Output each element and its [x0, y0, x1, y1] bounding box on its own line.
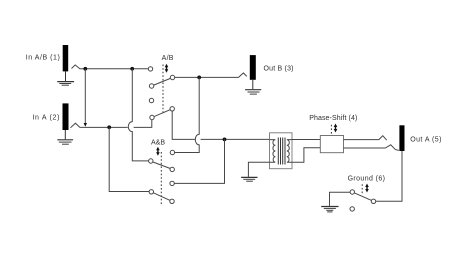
- switch S2 toggle arrow: [156, 147, 160, 156]
- switch S1 contact throw 1 up: [148, 67, 152, 71]
- phase-shift mechanical link (dashed): [330, 125, 332, 136]
- transformer T1 primary winding: [270, 140, 276, 163]
- switch S2 blade pole2: [153, 193, 170, 201]
- switch S2 pole 1: [149, 159, 153, 163]
- ground (transformer primary): [241, 177, 257, 181]
- ground (chassis via switch): [321, 207, 338, 212]
- switch S2 pole 2: [149, 190, 153, 194]
- switch S1 contact throw 2 down: [150, 115, 154, 119]
- transformer T1 box: [270, 133, 293, 169]
- wire phase-shift top output to Out A tip: [344, 136, 387, 141]
- switch S1 blade pole2: [154, 110, 170, 117]
- switch S3 pole: [371, 199, 375, 203]
- switch S2 mechanical link (dashed): [160, 152, 162, 205]
- wire J2 tip contact to A/B switch throw (gap under hop): [71, 123, 128, 128]
- ground switch toggle arrow: [365, 184, 369, 193]
- transformer T1 core: [278, 138, 285, 165]
- svg-text:Out A (5): Out A (5): [410, 137, 442, 144]
- switch S3 throw up (to ground): [350, 190, 354, 194]
- wire T1 secondary top to phase-shift box: [292, 139, 320, 141]
- svg-text:Ground (6): Ground (6): [348, 175, 386, 182]
- wire phase-shift bottom output to Out A ring: [344, 145, 399, 151]
- transformer T1 secondary winding: [287, 140, 292, 163]
- jack J4 Out A (5) plug bar: [399, 125, 404, 151]
- switch S1 toggle arrow: [165, 64, 169, 73]
- ground (jack J2 sleeve): [57, 130, 73, 144]
- switch S1 blade pole1: [154, 78, 171, 85]
- wire T1 primary bottom to ground: [248, 162, 269, 177]
- wire J1 tip contact to A/B switch throw: [72, 65, 149, 69]
- svg-text:A&B: A&B: [151, 139, 165, 146]
- wire S1 pole2 down and right to transformer primary (gap under hop): [172, 111, 196, 139]
- wire S1 pole1 to Out B jack tip: [175, 73, 247, 77]
- wire S3 throw to chassis ground: [330, 192, 351, 206]
- switch S3 throw down (open): [350, 207, 354, 211]
- switch S3 blade: [354, 193, 371, 201]
- switch S2 contact throw 1 up: [170, 150, 174, 154]
- node junction dot on In A/B line (x=85): [83, 67, 87, 71]
- wire trunk x=132 down to A&B pole 1 (hops over In A wire): [128, 69, 148, 161]
- svg-text:In A/B (1): In A/B (1): [26, 55, 61, 62]
- phase-shift U1 box: [320, 136, 343, 153]
- switch S1 mechanical link (dashed): [162, 65, 164, 115]
- wire T1 secondary bottom to phase-shift box: [292, 148, 320, 162]
- switch S1 pole 2: [170, 107, 174, 111]
- ground switch mechanical link (dashed): [361, 184, 363, 193]
- ground (jack J3 sleeve): [245, 80, 261, 94]
- switch S1 pole 1: [170, 75, 174, 79]
- switch S2 blade pole1: [153, 162, 170, 169]
- phase-shift toggle arrow: [334, 124, 338, 133]
- wire trunk x=224.5 down to A&B throw 3: [174, 139, 224, 183]
- node junction dot transformer line: [223, 138, 227, 142]
- jack J3 Out B (3) plug bar: [250, 55, 256, 80]
- svg-text:In A (2): In A (2): [32, 115, 60, 122]
- wire J4 sleeve down to ground switch pole: [376, 151, 402, 201]
- jack J1 In A/B (1) plug bar: [63, 45, 68, 71]
- wire trunk x=199 down to A&B throw 1 (hops over transformer wire): [175, 77, 200, 152]
- ground (jack J1 sleeve): [57, 71, 74, 85]
- node junction dot on In A/B line (x=132): [130, 67, 134, 71]
- svg-text:Phase-Shift (4): Phase-Shift (4): [309, 115, 357, 122]
- switch S2 contact throw 2 up: [170, 181, 174, 185]
- node junction dot on In A line: [107, 125, 111, 129]
- svg-text:Out B (3): Out B (3): [264, 65, 294, 72]
- wire trunk x=109 down to A&B pole 2: [109, 127, 149, 191]
- switch S1 contact throw 2 up: [149, 98, 153, 102]
- jack J2 In A (2) plug bar: [63, 103, 69, 130]
- wire normalling branch with arrow onto In A line: [84, 69, 86, 123]
- switch S2 contact throw 2 down: [170, 199, 174, 203]
- svg-text:A/B: A/B: [162, 55, 174, 62]
- switch S1 contact throw 1 down: [149, 84, 153, 88]
- node junction dot Out B line: [197, 76, 201, 80]
- switch S2 contact throw 1 down: [170, 167, 174, 171]
